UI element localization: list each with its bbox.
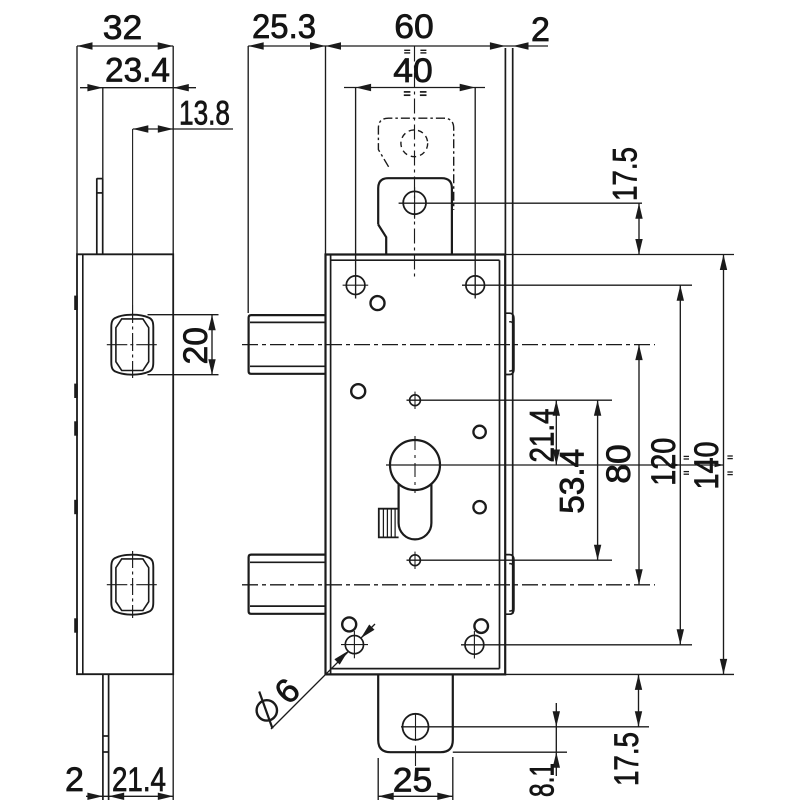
ext 32 left: [76, 46, 78, 254]
ext 20 top: [148, 314, 219, 316]
case inner wall bottom: [331, 668, 500, 670]
side view lower bolt oval: [111, 555, 153, 615]
lower bolt slot in sheet: [505, 555, 514, 615]
top mounting tab: [378, 178, 452, 254]
ext right to bottom dim: [172, 674, 174, 800]
tiny arrow at 120 line: [671, 463, 680, 467]
phantom position of top tab (dash-dot): [378, 118, 453, 210]
svg-text:25.3: 25.3: [252, 8, 316, 46]
ext from bolt tip: [247, 46, 249, 313]
small hole right lower: [473, 501, 485, 513]
leader from top tab hole: [399, 202, 642, 204]
dimension 40: [344, 87, 485, 89]
upper bolt axis dash-dot: [242, 344, 655, 346]
mounting hole bottom-right: [465, 635, 484, 654]
svg-text:23.4: 23.4: [105, 52, 170, 90]
centreline below bottom tab hole: [415, 746, 417, 767]
svg-text:2: 2: [531, 11, 550, 49]
small hole right upper: [473, 426, 485, 438]
dimension 32: [77, 45, 173, 47]
symmetry = marks under 60 dim: [404, 49, 410, 51]
mounting hole top-right: [466, 276, 485, 295]
side view top tab strip: [96, 178, 98, 254]
door sheet edge-on: [504, 48, 506, 255]
bottom dimension 2 / 21.4 (side view): [86, 795, 173, 797]
dimension 60: [326, 42, 342, 49]
ext case bottom to 140: [505, 673, 734, 675]
bottom tab hole: [403, 714, 429, 740]
dimension 17.5 top: [638, 203, 640, 254]
side view lock case: [77, 254, 173, 674]
euro cylinder head circle: [390, 440, 440, 490]
front view lock case: [326, 255, 506, 675]
cylinder horizontal centreline / leader to 140: [386, 464, 724, 466]
case inner wall right: [499, 260, 501, 668]
dimension 21.4: [555, 400, 557, 465]
upper bolt slot in sheet: [505, 313, 514, 374]
svg-text:80: 80: [600, 444, 638, 484]
symmetry = marks under 40 dim: [404, 91, 411, 93]
lower deadbolt: [249, 555, 326, 614]
tiny = marks beside 140 line: [727, 455, 732, 457]
svg-text:17.5: 17.5: [608, 732, 646, 786]
dimension 23.4: [80, 87, 196, 89]
small hole bottom-right: [474, 619, 488, 633]
cylinder vertical centreline: [414, 436, 416, 493]
ext 32/23.4/13.8 right: [172, 46, 174, 254]
side view upper bolt oval: [111, 315, 153, 375]
cylinder knurl tab: [379, 509, 399, 538]
top tab hole: [403, 191, 426, 214]
ext 20 bottom: [148, 374, 219, 376]
dia6 arrow lower-left: [334, 651, 348, 665]
svg-text:120: 120: [645, 438, 683, 486]
dimension 53.4: [597, 400, 599, 560]
lower oval centre line: [132, 551, 134, 618]
dimension 17.5 bottom: [638, 674, 640, 726]
ext tab bottom for 8.1: [453, 751, 567, 753]
ext 25 right: [452, 757, 454, 800]
top dimension line 25.3/60/2: [248, 45, 548, 47]
dimension 8.1: [555, 703, 557, 776]
svg-text:60: 60: [394, 8, 434, 46]
leader y=560: [407, 559, 613, 561]
dimension 2 (sheet): [513, 42, 529, 49]
svg-text:32: 32: [103, 9, 143, 47]
small hole upper-left: [371, 296, 385, 310]
13.8 extension upper part: [132, 129, 134, 305]
small hole bottom-left: [342, 617, 356, 631]
upper oval centre line: [132, 305, 134, 378]
dia6 arrow upper-right: [361, 625, 375, 639]
bottom mounting tab: [378, 674, 453, 752]
tiny = marks beside 120 line: [684, 455, 689, 457]
dimension 140: [723, 255, 725, 675]
40-dim extension into top-left hole: [355, 88, 357, 299]
side view inner wall line: [82, 254, 84, 674]
tiny crossed hole upper (21.4/53.4 datum): [410, 395, 421, 406]
svg-text:2: 2: [65, 761, 84, 799]
phantom hole (dashed): [401, 130, 428, 157]
leader from bottom-right hole to 120 dim: [461, 644, 692, 646]
case inner wall top: [331, 259, 500, 261]
dimension 120: [679, 285, 681, 645]
svg-text:25: 25: [393, 762, 433, 800]
ext 23.4 left: [102, 88, 104, 179]
svg-text:53.4: 53.4: [554, 449, 592, 514]
ext 25 left: [377, 758, 379, 800]
svg-text:17.5: 17.5: [607, 147, 645, 201]
dimension 80: [638, 345, 640, 585]
dimension 13.8: [133, 128, 233, 130]
svg-text:140: 140: [688, 442, 726, 490]
svg-text:21.4: 21.4: [112, 761, 166, 799]
leader y=400: [407, 399, 613, 401]
svg-text:20: 20: [177, 327, 215, 365]
side view rivet ticks on left edge: [74, 296, 78, 310]
tiny arrow at 140 line: [715, 463, 724, 467]
lower bolt axis dash-dot: [242, 584, 655, 586]
leader from top-right hole to 120 dim: [462, 284, 692, 286]
small hole mid-left: [351, 384, 365, 398]
40-dim extension into top-right hole: [474, 88, 476, 299]
case inner wall left: [330, 255, 332, 675]
dimension dia 6 diagonal: [271, 652, 348, 729]
ext case top to 140: [505, 254, 734, 256]
diameter symbol circle: [257, 700, 277, 720]
tiny crossed hole lower: [410, 555, 421, 566]
mounting hole bottom-left (dia 6): [345, 636, 363, 654]
svg-text:13.8: 13.8: [179, 95, 230, 133]
upper deadbolt: [249, 315, 326, 374]
mounting hole top-left: [346, 276, 365, 295]
svg-text:8.1: 8.1: [524, 763, 562, 797]
leader from bottom tab hole: [401, 726, 649, 728]
ext case left: [325, 46, 327, 255]
svg-text:40: 40: [393, 52, 433, 90]
euro cylinder stem: [399, 484, 432, 539]
diameter symbol slash: [259, 692, 272, 729]
vertical centreline of tab/cylinder: [414, 47, 416, 278]
side view bottom sheet strip: [102, 674, 104, 800]
